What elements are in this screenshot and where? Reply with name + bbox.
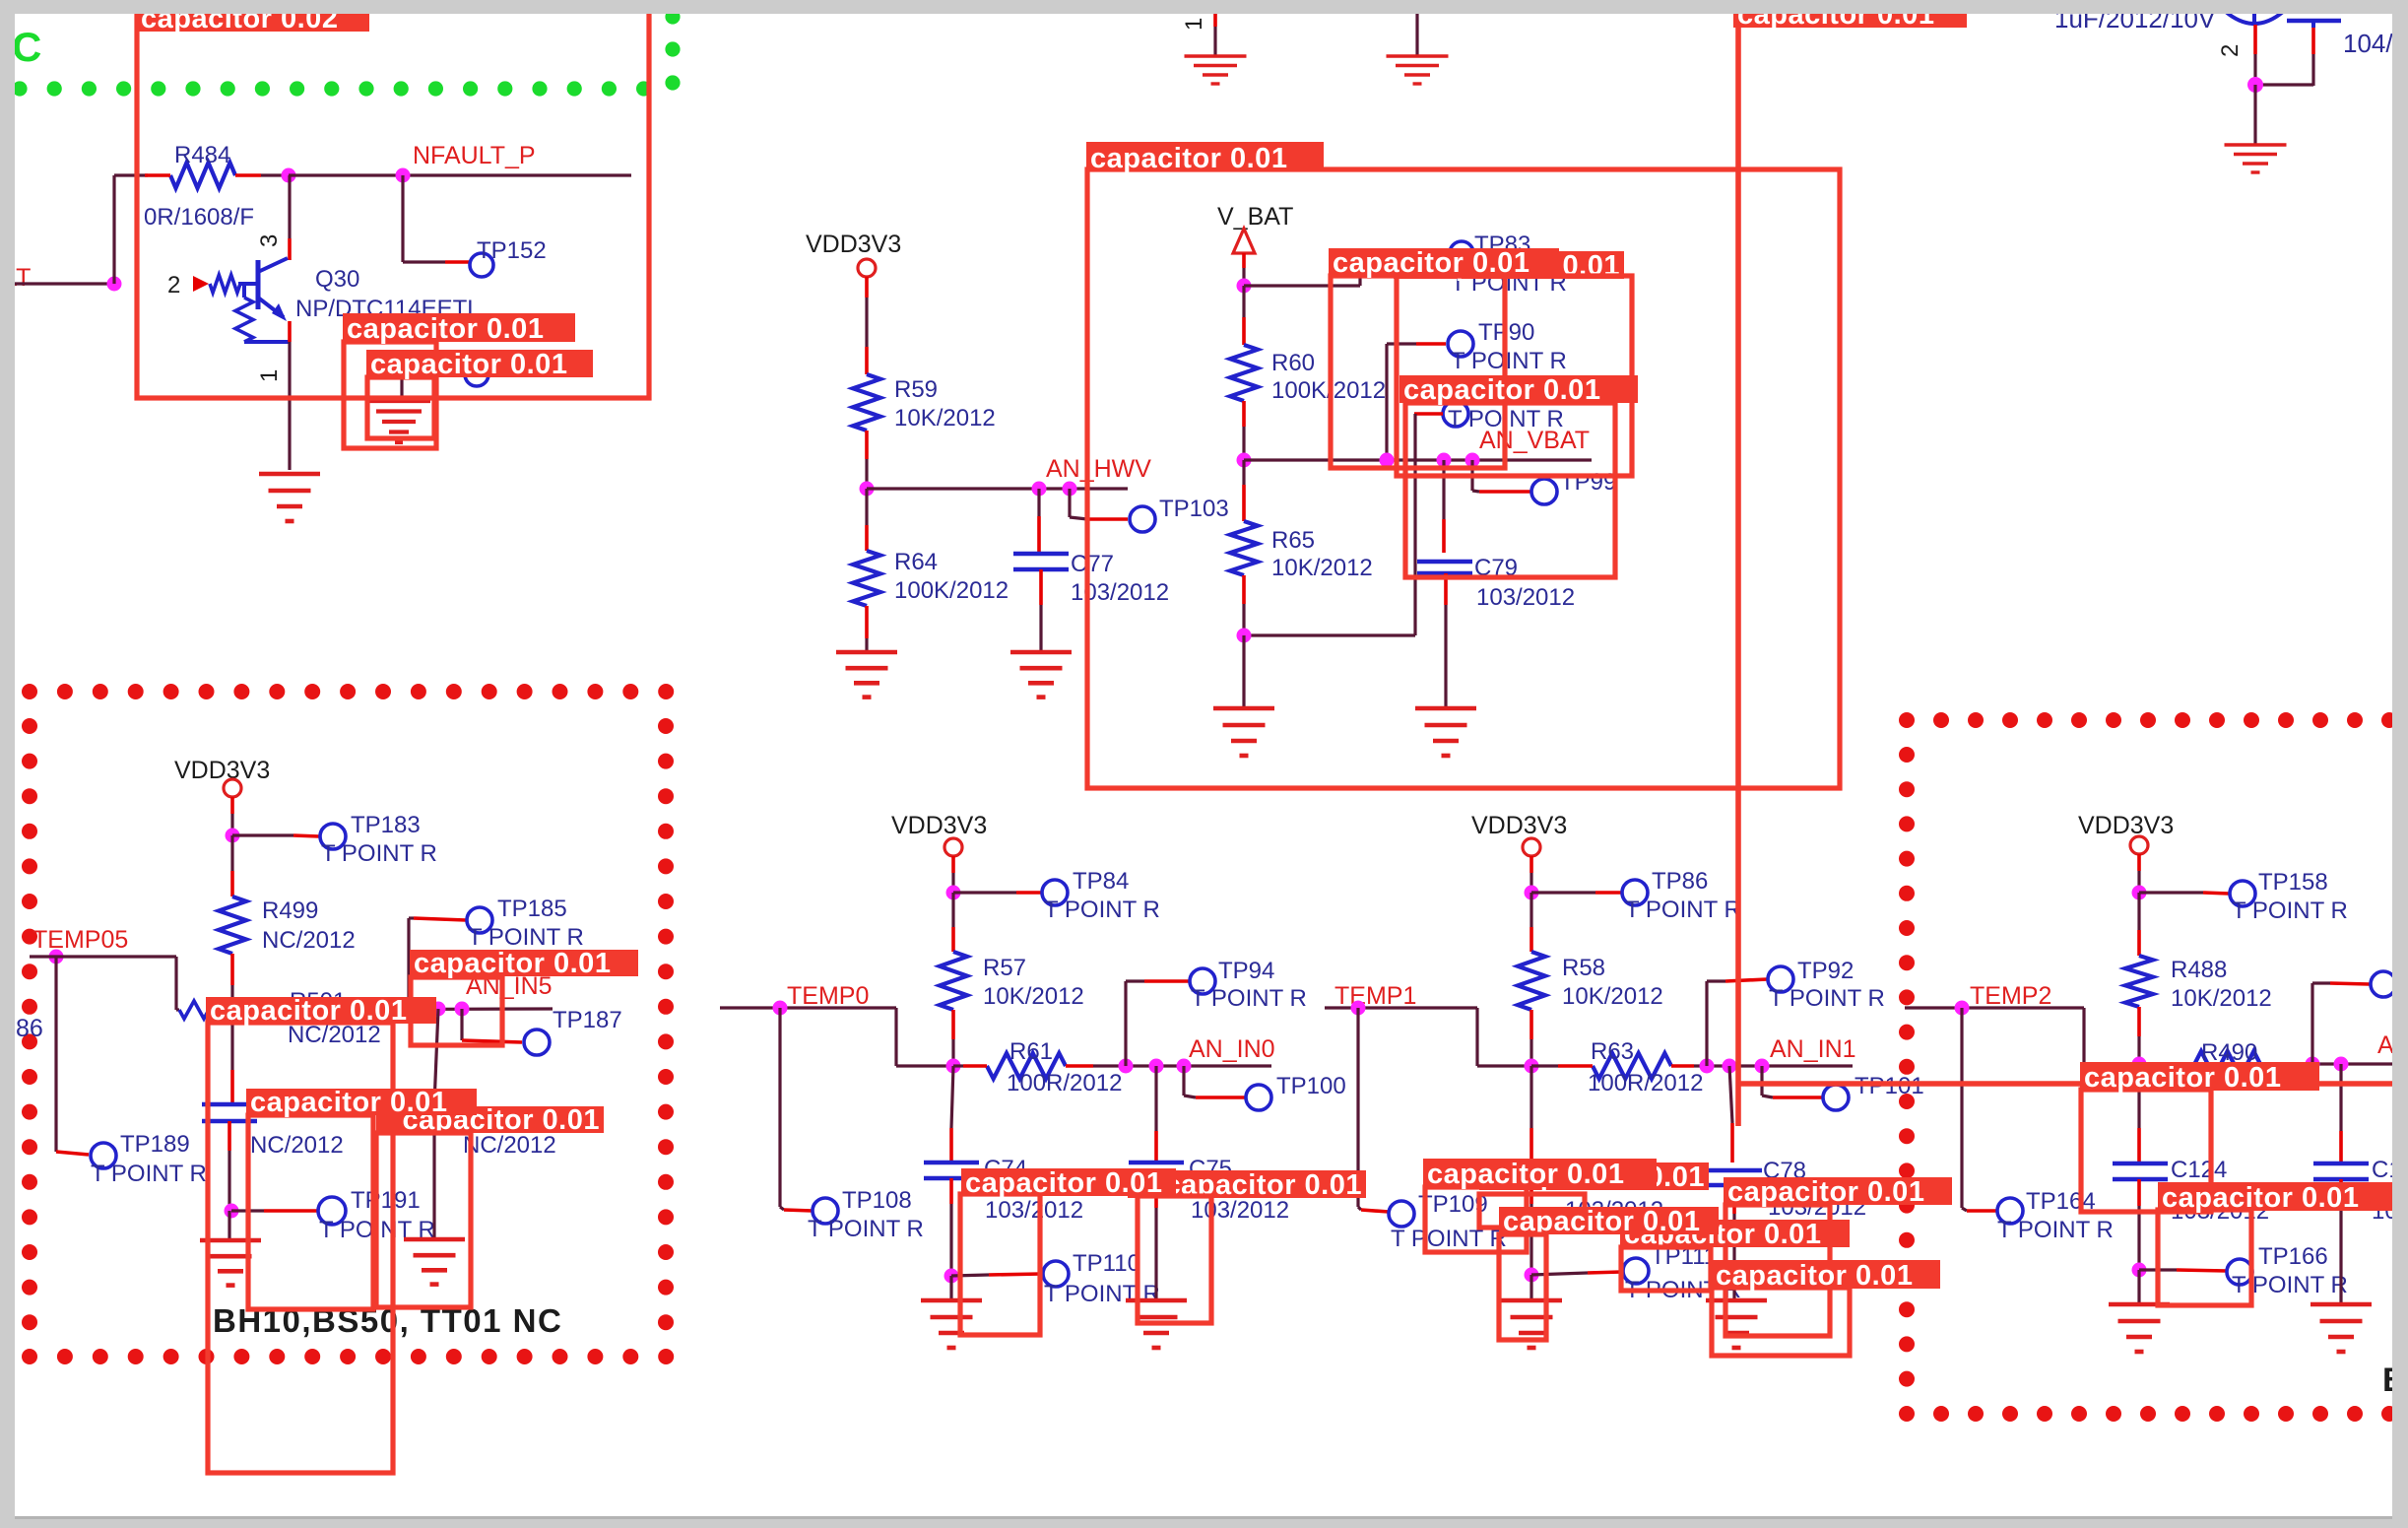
svg-text:NC/2012: NC/2012 [463, 1132, 556, 1159]
node junction [2306, 1057, 2320, 1072]
wire AN_IN0 [1093, 1064, 1271, 1067]
wire [228, 1121, 231, 1211]
svg-text:86: 86 [16, 1015, 43, 1042]
resistor R490 [2139, 1051, 2285, 1077]
testpoint TP189 [91, 1143, 116, 1168]
node junction [2132, 886, 2147, 900]
wire [1732, 1185, 1736, 1298]
detection box capacitor 0.01 [344, 342, 436, 448]
label T POINT R [1044, 1281, 1160, 1307]
svg-text:C124: C124 [2171, 1157, 2227, 1183]
svg-text:1: 1 [1181, 18, 1207, 31]
value 103/2012 [2171, 1198, 2269, 1225]
testpoint TP99 [1531, 479, 1557, 504]
wire [403, 260, 470, 263]
wire [780, 1008, 813, 1211]
value 100R/2012 [2198, 1067, 2313, 1094]
resistor R59 [853, 374, 880, 459]
svg-text:10K/2012: 10K/2012 [894, 405, 996, 432]
resistor R501 [179, 1001, 228, 1019]
node junction [1465, 453, 1480, 468]
detection box capacitor 0.01 [1712, 1288, 1850, 1356]
wire [1242, 427, 1245, 460]
label T POINT R [808, 1216, 924, 1242]
wire [865, 489, 868, 551]
ground [921, 1300, 982, 1348]
resistor R60 [1230, 345, 1258, 427]
wire [1358, 1008, 1389, 1212]
label T POINT R [1625, 897, 1741, 923]
detection label capacitor 0.01 [1724, 1176, 1952, 1208]
wire [1387, 344, 1446, 460]
detection label capacitor 0.01 [410, 948, 638, 979]
svg-text:VDD3V3: VDD3V3 [806, 231, 901, 258]
wire [261, 173, 289, 176]
ground [1415, 708, 1476, 756]
label R65 [1271, 527, 1315, 554]
capacitor C78 [1707, 1170, 1762, 1185]
svg-text:T POINT R: T POINT R [2232, 897, 2348, 924]
svg-text:104/: 104/ [2343, 29, 2393, 58]
label TP189 [120, 1131, 190, 1158]
label TP185 [497, 896, 567, 922]
capacitor C75 [1129, 1163, 1184, 1178]
value 103/2012 [1476, 584, 1575, 611]
wire NFAULT_P [289, 173, 631, 176]
label R60 [1271, 350, 1315, 376]
wire [462, 1009, 522, 1042]
detection label capacitor 0.01 (hidden) [376, 1104, 604, 1136]
ground [1501, 1300, 1562, 1348]
label T POINT R [2232, 1272, 2348, 1298]
svg-text:10K/2012: 10K/2012 [1271, 555, 1373, 581]
node junction [946, 1059, 961, 1074]
transistor Q30 [210, 258, 290, 342]
svg-text:2: 2 [2217, 44, 2244, 57]
svg-text:103/2012: 103/2012 [985, 1197, 1083, 1224]
detection label capacitor 0.01 [246, 1087, 477, 1118]
node junction [944, 1269, 959, 1284]
detection label capacitor 0.01 [961, 1167, 1176, 1199]
label T POINT R [321, 840, 437, 867]
detection label capacitor 0.01 [206, 995, 436, 1027]
net ULT label [0, 264, 31, 292]
text BH10,BS50, TT01 NC [213, 1302, 562, 1339]
wire [232, 835, 319, 836]
testpoint TP187 [524, 1030, 550, 1055]
wire [1962, 1008, 1996, 1211]
svg-text:TP99: TP99 [1560, 469, 1616, 496]
node junction [1525, 1059, 1539, 1074]
svg-text:100R/2012: 100R/2012 [1007, 1070, 1122, 1096]
label R484 [174, 142, 230, 168]
ground [1010, 652, 1072, 698]
node junction [1755, 1059, 1770, 1074]
label R488 [2171, 957, 2227, 983]
svg-text:TP110: TP110 [1073, 1250, 1140, 1277]
detection box capacitor 0.01 [960, 1194, 1040, 1335]
label R57 [983, 955, 1026, 981]
value NC/2012 [463, 1132, 556, 1159]
svg-text:2: 2 [167, 272, 180, 299]
detection box capacitor 0.01 [208, 1023, 393, 1473]
wire [1154, 1178, 1158, 1298]
net NFAULT_P label [413, 142, 536, 169]
svg-text:VDD3V3: VDD3V3 [1471, 812, 1567, 839]
wire [409, 918, 466, 1007]
wire [1531, 891, 1621, 894]
svg-text:TEMP1: TEMP1 [1334, 982, 1416, 1010]
label C78 [1763, 1158, 1806, 1184]
node junction [455, 1002, 470, 1017]
wire [2253, 25, 2257, 85]
detection line capacitor 0.01 (tall) [1738, 28, 2408, 1126]
testpoint TP92 [1768, 966, 1793, 992]
svg-text:R499: R499 [262, 897, 318, 924]
label Q30 [315, 266, 359, 293]
svg-text:T POINT R: T POINT R [808, 1216, 924, 1242]
wire collector [288, 175, 291, 260]
label T POINT R [91, 1161, 207, 1187]
label T POINT R [1191, 985, 1307, 1012]
label R58 [1562, 955, 1605, 981]
svg-text:R60: R60 [1271, 350, 1315, 376]
pin 1 [256, 369, 283, 382]
svg-text:TP100: TP100 [1276, 1073, 1346, 1099]
wire [2137, 1179, 2141, 1270]
ground [404, 1239, 465, 1285]
node junction [2132, 1057, 2147, 1072]
label R59 [894, 376, 938, 403]
svg-text:R61: R61 [1009, 1038, 1053, 1065]
testpoint TP185 [467, 907, 492, 933]
testpoint TP151 (hidden) [465, 363, 488, 386]
capacitor C(1uF) straight plate [2287, 21, 2341, 28]
testpoint TP101 [1823, 1085, 1849, 1110]
node junction [1525, 886, 1539, 900]
net AN_IN5 label [466, 972, 553, 1000]
label C76 [1564, 1156, 1607, 1182]
label TP183 [351, 812, 421, 838]
net AN_IN2 label [2377, 1031, 2408, 1059]
power VDD3V3 [891, 812, 987, 856]
node junction [2334, 1057, 2349, 1072]
testpoint TP83 [1450, 241, 1473, 265]
wire TEMP0 [720, 1008, 953, 1066]
svg-text:TP103: TP103 [1159, 496, 1229, 522]
pin 3 [256, 234, 283, 247]
detection label capacitor 0.01 (hidden) [1479, 1162, 1709, 1193]
value 100R/2012 [1588, 1070, 1703, 1096]
detection label capacitor 0.01 [1620, 1219, 1850, 1250]
wire [1531, 1272, 1622, 1275]
wire [951, 856, 955, 893]
ground [1126, 1300, 1187, 1348]
wire [2137, 1270, 2140, 1302]
svg-text:0R/1608/F: 0R/1608/F [144, 204, 254, 231]
wire [949, 1276, 952, 1298]
svg-text:V_BAT: V_BAT [1217, 203, 1293, 231]
node junction [1700, 1059, 1715, 1074]
wire [1242, 604, 1245, 635]
wire [949, 1178, 953, 1276]
svg-text:TP92: TP92 [1797, 958, 1854, 984]
resistor R64 [853, 551, 880, 638]
wire [951, 893, 954, 952]
resistor R57 [940, 952, 967, 1039]
ground [2225, 145, 2287, 172]
net TEMP05 label [33, 926, 128, 954]
node junction [431, 1002, 446, 1017]
node junction [226, 1003, 240, 1018]
testpoint TP108 [813, 1198, 838, 1224]
svg-text:R484: R484 [174, 142, 230, 168]
value NP/DTC114EETL [295, 296, 481, 322]
svg-text:R57: R57 [983, 955, 1026, 981]
wire AN_IN2 [2285, 1062, 2408, 1065]
wire [1242, 635, 1245, 706]
wire [1244, 253, 1448, 286]
detection box capacitor 0.01 [1499, 1234, 1546, 1340]
detection label capacitor 0.01 [366, 349, 593, 380]
detection label capacitor 0.01 [1329, 247, 1559, 279]
label TP109 [1418, 1191, 1488, 1218]
wire [1529, 856, 1533, 893]
node junction [226, 829, 240, 843]
svg-text:R488: R488 [2171, 957, 2227, 983]
detection label capacitor 0.01 [1423, 1159, 1657, 1190]
detection box capacitor 0.01 [376, 1133, 471, 1307]
wire TEMP05 [30, 957, 179, 1010]
wire [1529, 1178, 1533, 1275]
capacitor C745 (hidden) [407, 1104, 462, 1121]
testpoint TP191 [318, 1197, 346, 1225]
label TP108 [842, 1187, 912, 1214]
value NC/2012 [288, 1022, 381, 1048]
label T POINT R [1044, 897, 1160, 923]
value 103/2012 [1768, 1194, 1866, 1221]
node junction [946, 886, 961, 900]
detection box capacitor 0.01 [248, 1115, 373, 1309]
svg-text:TEMP2: TEMP2 [1970, 982, 2051, 1010]
testpoint TP110 [1043, 1261, 1069, 1287]
node junction [773, 1001, 788, 1016]
svg-text:10K/2012: 10K/2012 [2171, 985, 2272, 1012]
svg-text:capacitor 0.01: capacitor 0.01 [1090, 143, 1287, 174]
value 104/ [2343, 29, 2393, 58]
wire [1126, 981, 1189, 1066]
detection label capacitor 0.01 [1712, 1260, 1940, 1292]
svg-text:TP158: TP158 [2258, 869, 2328, 896]
label T POINT R [1391, 1226, 1507, 1252]
value 103/2012 [1071, 579, 1169, 606]
svg-text:capacitor 0.01: capacitor 0.01 [1427, 1159, 1624, 1190]
svg-text:T POINT R: T POINT R [1044, 897, 1160, 923]
node junction ULT [107, 277, 122, 292]
value 0R/1608/F [144, 204, 254, 231]
net AN_IN1 label [1770, 1035, 1856, 1063]
wire [1039, 569, 1043, 650]
label TP90 [1478, 319, 1534, 346]
wire [230, 835, 233, 897]
label TP84 [1073, 868, 1129, 895]
svg-text:T POINT R: T POINT R [468, 924, 584, 951]
wire [1154, 1066, 1157, 1162]
detection label capacitor 0.01 (hidden) [1128, 1169, 1366, 1201]
wire [1242, 253, 1246, 286]
svg-text:T POINT R: T POINT R [321, 840, 437, 867]
node junction [396, 168, 411, 183]
pin 1 [1181, 18, 1207, 31]
detection label capacitor 0.01 [2080, 1062, 2319, 1094]
svg-text:T POINT R: T POINT R [1044, 1281, 1160, 1307]
wire [1037, 489, 1040, 553]
svg-text:capacitor 0.01: capacitor 0.01 [1716, 1260, 1913, 1292]
testpoint TP166 [2227, 1259, 2252, 1285]
testpoint TP152 [470, 253, 493, 277]
label TP164 [2026, 1188, 2096, 1215]
wire [2137, 893, 2140, 956]
value 10K/2012 [983, 983, 1084, 1010]
ground [1706, 1300, 1767, 1348]
capacitor C(1uF) curved plate [2226, 12, 2283, 25]
value NC/2012 [262, 927, 356, 954]
node junction [225, 1204, 239, 1219]
node junction [1177, 1059, 1192, 1074]
label T POINT R [319, 1217, 435, 1243]
svg-text:capacitor 0.01: capacitor 0.01 [1333, 247, 1529, 279]
testpoint TP183 [320, 824, 346, 849]
testpoint TP84 [1042, 880, 1068, 905]
node junction [1237, 453, 1252, 468]
wire [230, 797, 234, 835]
detection box capacitor 0.01 (big) [1087, 169, 1840, 788]
svg-text:TEMP05: TEMP05 [33, 926, 128, 954]
svg-text:TP185: TP185 [497, 896, 567, 922]
wire [865, 459, 868, 489]
label R64 [894, 549, 938, 575]
node junction [1237, 629, 1252, 643]
net TEMP1 label [1334, 982, 1416, 1010]
capacitor C74 [924, 1163, 979, 1178]
red dotted border BH10 box [22, 684, 674, 1364]
ground [1185, 56, 1247, 84]
svg-text:TP189: TP189 [120, 1131, 190, 1158]
testpoint TP90 [1448, 331, 1473, 357]
label T POINT R [2232, 897, 2348, 924]
wire ULT [0, 282, 114, 285]
wire [865, 277, 869, 374]
svg-text:C77: C77 [1071, 551, 1114, 577]
svg-text:capacitor 0.01: capacitor 0.01 [1727, 1176, 1924, 1208]
wire AN_IN1 [1694, 1064, 1853, 1067]
label TP86 [1652, 868, 1708, 895]
red dotted border TEMP2 box [1899, 712, 2397, 1422]
detection label capacitor 0.01 (hidden) [1394, 250, 1624, 282]
wire [2139, 1270, 2227, 1271]
label C74 [984, 1156, 1027, 1182]
net TEMP0 label [787, 982, 869, 1010]
label TP166 [2258, 1243, 2328, 1270]
testpoint TP103 [1130, 506, 1155, 532]
testpoint TP86 [1622, 880, 1648, 905]
label TP187 [553, 1007, 622, 1033]
svg-text:capacitor 0.01: capacitor 0.01 [2162, 1182, 2359, 1214]
value NC/2012 [250, 1132, 344, 1159]
svg-text:10K/2012: 10K/2012 [1562, 983, 1663, 1010]
ground [367, 401, 430, 442]
wire AN_IN5 [228, 1009, 553, 1010]
svg-text:NC/2012: NC/2012 [262, 927, 356, 954]
label C125 [2372, 1157, 2408, 1183]
detection box capacitor 0.01 [1331, 276, 1505, 468]
label TP158 [2258, 869, 2328, 896]
svg-text:R63: R63 [1591, 1038, 1634, 1065]
detection box capacitor 0.01 [1479, 1194, 1585, 1228]
resistor R61 [953, 1053, 1093, 1079]
resistor R63 [1531, 1053, 1694, 1079]
detection box capacitor 0.01 [367, 377, 434, 438]
node junction [1032, 482, 1047, 497]
wire [231, 1209, 317, 1212]
svg-text:TP191: TP191 [351, 1187, 421, 1214]
detection box capacitor 0.01 [2158, 1210, 2251, 1305]
svg-text:R58: R58 [1562, 955, 1605, 981]
wire [1529, 893, 1532, 952]
wire [1707, 979, 1767, 1066]
label R490 [2201, 1039, 2257, 1066]
label T POINT R [1997, 1217, 2114, 1243]
resistor R499 [219, 897, 246, 985]
wire [2137, 854, 2141, 893]
wire [2137, 1036, 2140, 1064]
label TP152 [477, 237, 547, 264]
svg-text:capacitor 0.01: capacitor 0.01 [965, 1167, 1162, 1199]
pin 2 [2217, 44, 2244, 57]
green dotted border [12, 9, 680, 96]
wire [951, 1274, 1042, 1276]
power VDD3V3 [2078, 812, 2174, 854]
wire [1242, 460, 1245, 521]
wire TEMP1 [1325, 1008, 1531, 1066]
label T POINT R [1448, 406, 1564, 432]
wire [2253, 85, 2256, 144]
wire [112, 175, 115, 284]
detection box capacitor 0.01 [1397, 276, 1632, 476]
capacitor C76 [1504, 1163, 1559, 1178]
label R61 [1009, 1038, 1053, 1065]
detection label capacitor 0.02 [137, 3, 369, 34]
wire [1242, 286, 1245, 345]
svg-text:capacitor 0.01: capacitor 0.01 [347, 313, 544, 345]
node junction [2247, 77, 2263, 93]
value 10K/2012 [1271, 555, 1373, 581]
wire [1070, 489, 1128, 519]
svg-text:NC/2012: NC/2012 [250, 1132, 344, 1159]
wire [2339, 1064, 2342, 1162]
svg-text:capacitor 0.01: capacitor 0.01 [370, 349, 567, 380]
wire base arrow [193, 276, 209, 292]
label R499 [262, 897, 318, 924]
label T POINT R [1451, 348, 1567, 374]
svg-text:R65: R65 [1271, 527, 1315, 554]
value 10K/2012 [894, 405, 996, 432]
ground [2310, 1304, 2372, 1352]
ground [259, 474, 320, 521]
label TP83 [1474, 232, 1530, 258]
detection label capacitor 0.01 [1086, 142, 1324, 174]
svg-text:TEMP0: TEMP0 [787, 982, 869, 1010]
